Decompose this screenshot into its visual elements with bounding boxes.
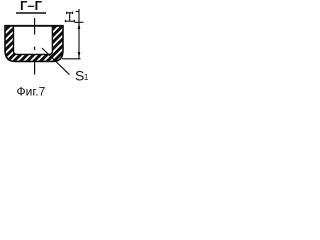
dimension arrow up: [78, 22, 81, 29]
cup outer outline: [5, 26, 63, 62]
cup inner outline: [14, 26, 53, 55]
svg-text:Фиг.7: Фиг.7: [17, 85, 46, 99]
dimension bottom extension line: [62, 58, 81, 60]
leader line S1: [42, 48, 70, 75]
dimension line H: [78, 9, 80, 59]
cup section hatch fill: [5, 26, 63, 62]
section label underline: [16, 12, 46, 14]
cup rim line: [4, 25, 63, 27]
svg-text:1: 1: [84, 73, 89, 82]
centerline lower dash: [34, 62, 36, 75]
dimension top extension line: [75, 21, 84, 23]
dimension arrow down: [78, 52, 81, 59]
dimension top serif tick: [76, 11, 80, 13]
centerline middle dot: [34, 47, 36, 51]
svg-text:Г–Г: Г–Г: [20, 0, 43, 13]
dimension H label (rotated): [65, 12, 75, 23]
centerline upper dash: [34, 18, 36, 35]
